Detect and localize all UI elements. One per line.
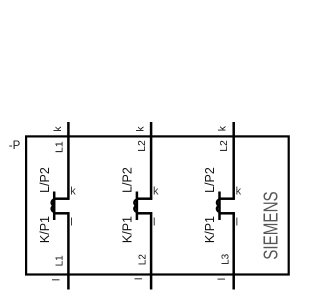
svg-text:L/P2: L/P2 [203, 167, 217, 193]
svg-text:l: l [133, 278, 145, 280]
wire L3 primary top [232, 122, 235, 200]
svg-text:l: l [70, 217, 72, 229]
transformer T3 winding K/P1-L/P2 [217, 192, 220, 221]
svg-text:L2: L2 [136, 140, 148, 152]
wire k stub CT2 top [137, 197, 152, 200]
wire L1 primary top [67, 122, 70, 200]
svg-text:l: l [51, 279, 63, 281]
svg-text:K/P1: K/P1 [38, 216, 52, 243]
wire k stub CT1 top [54, 197, 69, 200]
wire l stub CT1 bottom [54, 212, 69, 215]
svg-text:k: k [52, 126, 64, 132]
svg-text:SIEMENS: SIEMENS [259, 191, 282, 260]
svg-text:k: k [217, 125, 229, 131]
svg-text:l: l [236, 217, 238, 229]
svg-text:k: k [135, 126, 147, 132]
wire L3 primary bottom [232, 212, 235, 289]
device outline box -P [26, 136, 289, 274]
wire l stub CT2 bottom [137, 212, 152, 215]
wire L2 primary top [150, 122, 153, 200]
svg-text:L/P2: L/P2 [121, 167, 135, 193]
transformer T2 winding K/P1-L/P2 [134, 192, 137, 221]
svg-text:l: l [153, 217, 155, 229]
svg-text:L2: L2 [137, 254, 148, 266]
svg-text:l: l [216, 278, 228, 280]
svg-text:k: k [70, 186, 76, 198]
svg-text:K/P1: K/P1 [203, 216, 217, 243]
svg-text:-P: -P [9, 140, 21, 152]
svg-text:k: k [153, 186, 159, 198]
wire l stub CT3 bottom [220, 212, 235, 215]
svg-text:L/P2: L/P2 [38, 167, 52, 193]
svg-text:K/P1: K/P1 [121, 216, 135, 243]
svg-text:L1: L1 [54, 141, 66, 153]
svg-text:L1: L1 [55, 255, 66, 267]
wire L2 primary bottom [150, 212, 153, 289]
wire L1 primary bottom [67, 212, 70, 289]
transformer T1 winding K/P1-L/P2 [52, 192, 55, 221]
wire k stub CT3 top [220, 197, 235, 200]
svg-text:L3: L3 [221, 253, 232, 265]
svg-text:k: k [236, 186, 242, 198]
svg-text:L2: L2 [218, 140, 230, 152]
